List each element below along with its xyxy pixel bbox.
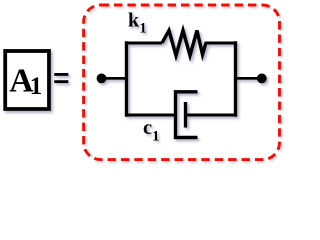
svg-text:k: k	[128, 10, 140, 32]
block A1 box	[5, 51, 49, 109]
damper c1 cylinder cup	[176, 92, 198, 138]
wire right stub	[236, 77, 262, 80]
svg-text:1: 1	[139, 21, 147, 37]
svg-text:c: c	[143, 117, 152, 139]
node right terminal dot	[257, 74, 267, 84]
wire left bar (junction)	[125, 43, 128, 115]
equals sign	[54, 73, 68, 76]
damper piston rod (wire bottom-right segment)	[186, 114, 236, 117]
svg-text:1: 1	[152, 129, 160, 145]
wire right bar (junction)	[234, 43, 237, 115]
svg-text:1: 1	[30, 73, 43, 100]
dashed red boundary frame	[84, 5, 280, 160]
wire top-left segment	[127, 42, 163, 45]
damper c1 piston plate	[184, 102, 187, 128]
wire bottom-left segment	[127, 114, 175, 117]
node left terminal dot	[97, 74, 107, 84]
wire top-right segment	[205, 42, 236, 45]
spring k1 zigzag	[162, 31, 206, 56]
wire left stub	[102, 77, 127, 80]
